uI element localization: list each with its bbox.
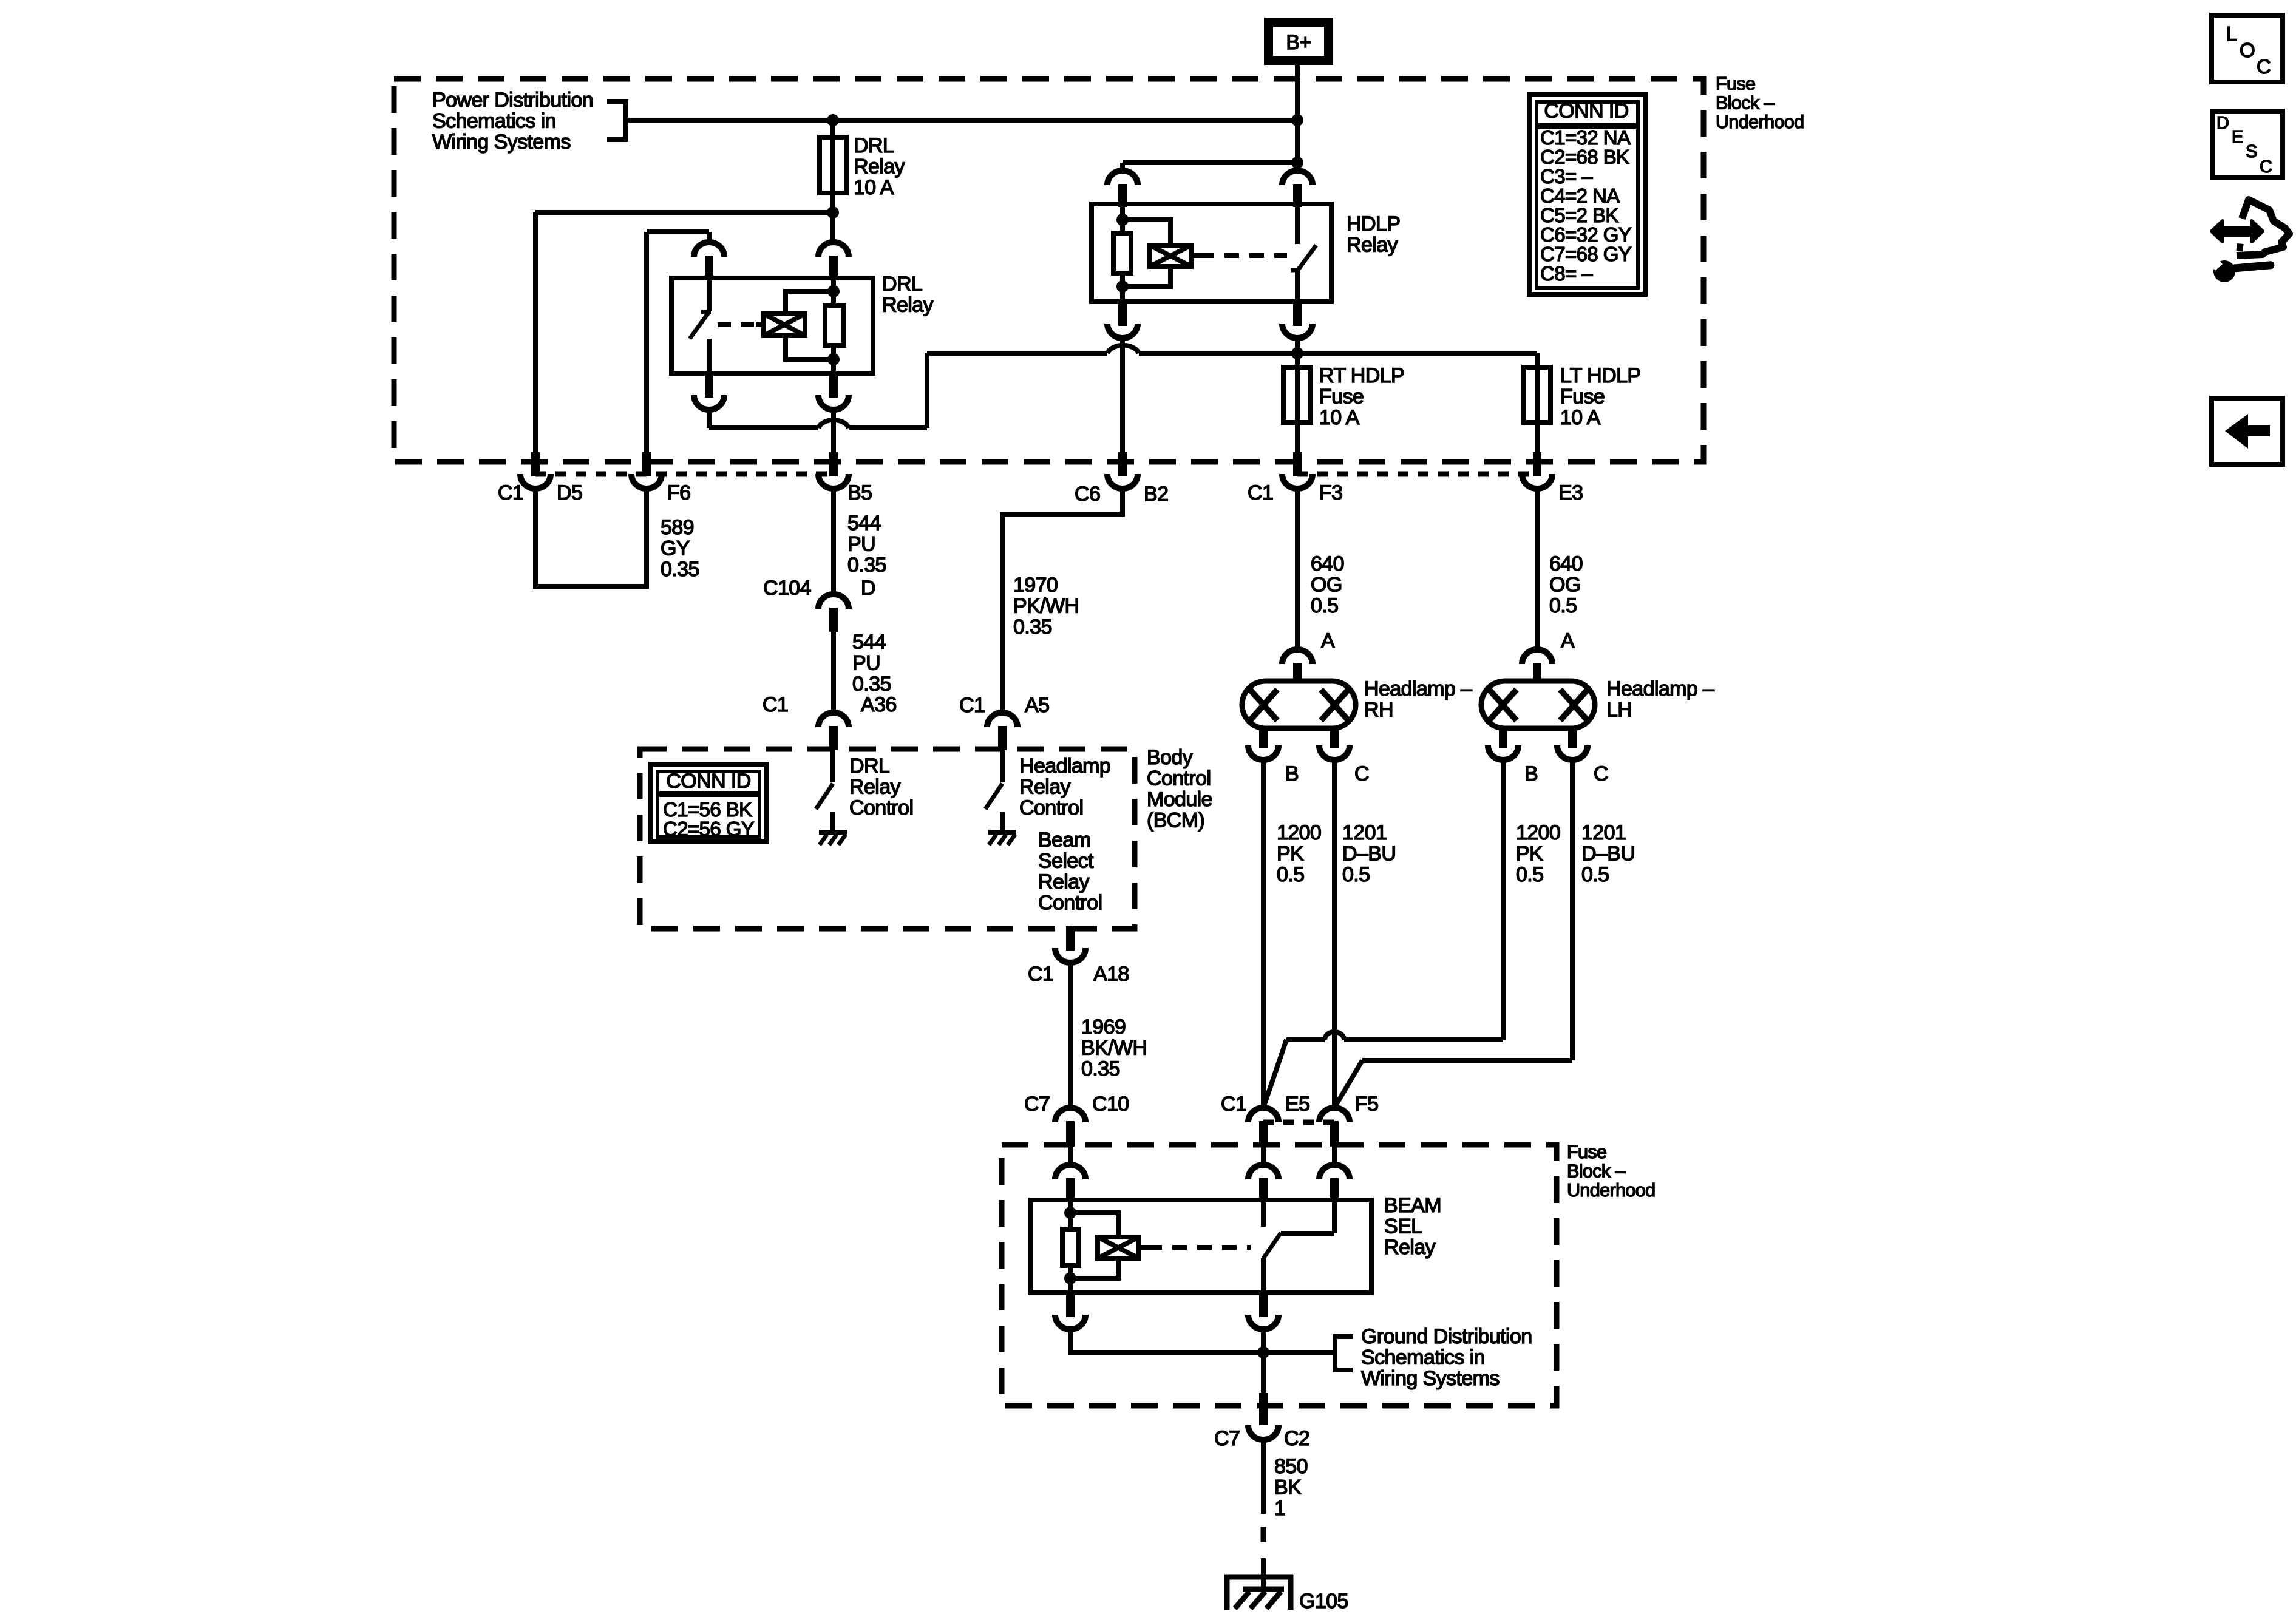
node HDLP coil top <box>1116 214 1129 226</box>
svg-text:OG: OG <box>1549 574 1581 597</box>
svg-text:A5: A5 <box>1025 694 1049 717</box>
svg-text:B2: B2 <box>1144 483 1168 506</box>
fuse block underhood dashed box <box>394 79 1703 462</box>
wire below C2 <box>1261 1439 1266 1514</box>
svg-text:Relay: Relay <box>882 294 934 317</box>
svg-text:G105: G105 <box>1299 1590 1348 1613</box>
connector C1/E5 <box>1248 1108 1279 1122</box>
svg-text:640: 640 <box>1311 552 1344 575</box>
svg-text:0.5: 0.5 <box>1516 863 1543 886</box>
node junction below DRL fuse <box>827 206 839 219</box>
svg-text:PK: PK <box>1516 842 1543 866</box>
connector C7/C10 <box>1055 1108 1085 1122</box>
connector B5 <box>829 452 838 476</box>
connector C1/F3 <box>1293 452 1302 476</box>
wire B2 to A5 <box>1002 487 1123 713</box>
wire B+ vertical drop <box>1295 65 1300 171</box>
svg-text:0.5: 0.5 <box>1311 594 1338 617</box>
connector C1/A5 <box>987 713 1017 727</box>
connector F6 <box>642 452 651 476</box>
svg-text:F6: F6 <box>667 481 690 504</box>
CONN ID table (fuse block) <box>1529 95 1645 294</box>
fuse DRL Relay 10A <box>820 137 846 193</box>
wire DRL fuse to relay <box>830 212 835 242</box>
wire LH-C to F5 routing <box>1362 1058 1572 1063</box>
wire diagonal to F5 <box>1334 1060 1362 1108</box>
connector C1/A18 <box>1066 926 1075 951</box>
ground (DRL relay control) <box>819 830 847 835</box>
wire F6 feed horizontal <box>647 229 709 234</box>
svg-text:HDLP: HDLP <box>1347 212 1400 236</box>
icon LOC box <box>2212 15 2283 82</box>
connector beam relay socket E5 <box>1248 1165 1279 1179</box>
fuse RT HDLP 10A <box>1295 353 1300 452</box>
wire beam output down <box>1261 1328 1266 1393</box>
svg-text:A: A <box>1561 629 1575 653</box>
connector headlamp RH pin A <box>1282 649 1313 664</box>
svg-text:0.5: 0.5 <box>1277 863 1304 886</box>
svg-text:L: L <box>2226 22 2237 45</box>
svg-text:E3: E3 <box>1558 481 1583 504</box>
svg-text:Relay: Relay <box>1384 1236 1436 1259</box>
ground (headlamp relay control) <box>988 830 1016 835</box>
svg-text:C1: C1 <box>959 694 985 717</box>
wire F5 into block <box>1332 1145 1337 1165</box>
resistor HDLP relay <box>1113 233 1131 273</box>
DRL relay coil loop <box>786 291 834 314</box>
hop over RH high beam wire <box>1325 1032 1344 1040</box>
coil HDLP relay <box>1150 245 1191 266</box>
svg-text:C: C <box>2257 55 2271 78</box>
svg-text:C104: C104 <box>763 577 811 600</box>
svg-text:Fuse: Fuse <box>1560 385 1605 408</box>
connector HDLP relay out right <box>1293 302 1302 326</box>
svg-text:B: B <box>1285 762 1299 785</box>
svg-text:Control: Control <box>1147 767 1211 790</box>
HDLP relay actuation dashed <box>1200 253 1287 258</box>
wire HDLP coil feed horizontal <box>1123 160 1297 165</box>
svg-text:544: 544 <box>852 631 886 654</box>
svg-text:C1: C1 <box>763 693 788 716</box>
svg-text:Fuse: Fuse <box>1716 73 1755 94</box>
svg-text:(BCM): (BCM) <box>1147 809 1204 832</box>
lamp headlamp RH <box>1242 681 1356 728</box>
wire diagonal to E5 <box>1263 1040 1286 1108</box>
svg-text:CONN ID: CONN ID <box>1544 100 1628 123</box>
svg-text:PK: PK <box>1277 842 1304 866</box>
svg-text:Relay: Relay <box>1019 776 1071 799</box>
node HDLP coil bottom <box>1116 280 1129 293</box>
svg-text:850: 850 <box>1274 1455 1308 1478</box>
svg-text:0.5: 0.5 <box>1342 863 1370 886</box>
hop over B2 wire <box>1107 345 1139 353</box>
HDLP relay coil loop <box>1123 220 1170 245</box>
svg-text:Relay: Relay <box>1038 870 1090 893</box>
svg-text:Relay: Relay <box>1347 234 1398 257</box>
svg-text:GY: GY <box>661 537 690 560</box>
wire dashed to ground <box>1261 1527 1266 1542</box>
fuse LT HDLP 10A <box>1535 353 1540 452</box>
wire LH-B to E5 routing <box>1344 1037 1503 1042</box>
connector beam relay socket F5 <box>1319 1165 1350 1179</box>
svg-text:Control: Control <box>1019 796 1083 819</box>
node DRL coil top <box>827 285 840 297</box>
connector HDLP relay pin right <box>1282 171 1313 185</box>
dotted connector line C1 left <box>535 472 834 477</box>
wire F3 to RH headlamp <box>1295 487 1300 649</box>
beam relay switch <box>1261 1200 1266 1227</box>
wire B5 column through <box>831 408 836 452</box>
wire DRL output horizontal <box>709 425 818 430</box>
connector DRL relay out left <box>705 373 713 398</box>
svg-text:Relay: Relay <box>854 155 905 178</box>
svg-text:Underhood: Underhood <box>1716 112 1804 132</box>
svg-text:C: C <box>2260 157 2272 177</box>
svg-text:E5: E5 <box>1285 1093 1309 1116</box>
svg-text:D5: D5 <box>557 481 582 504</box>
power feed node B+ box <box>1264 18 1333 65</box>
svg-text:Headlamp: Headlamp <box>1019 754 1110 778</box>
svg-text:RH: RH <box>1364 699 1393 722</box>
icon connector repair <box>2237 200 2289 256</box>
connector headlamp RH pin C <box>1330 728 1339 748</box>
svg-text:1969: 1969 <box>1081 1015 1126 1039</box>
wire into DRL relay left pin <box>707 232 712 242</box>
svg-text:0.5: 0.5 <box>1549 594 1577 617</box>
svg-text:1200: 1200 <box>1516 821 1560 844</box>
beam relay actuation dashed <box>1147 1245 1251 1250</box>
HDLP relay coil feed <box>1120 204 1125 233</box>
svg-text:S: S <box>2246 142 2257 161</box>
svg-text:0.35: 0.35 <box>847 554 886 577</box>
svg-text:C: C <box>1354 762 1369 785</box>
svg-text:C10: C10 <box>1092 1093 1129 1116</box>
wire HDLP switch output <box>1295 337 1300 367</box>
connector DRL relay pin left <box>694 242 724 257</box>
wire E5 into block <box>1261 1145 1266 1165</box>
connector F5 <box>1319 1108 1350 1122</box>
svg-text:F3: F3 <box>1319 481 1342 504</box>
wire E3 to LH headlamp <box>1535 487 1540 649</box>
svg-text:Headlamp –: Headlamp – <box>1364 677 1472 700</box>
wire into G105 <box>1261 1558 1266 1592</box>
node junction on feed at B+ drop <box>1291 114 1303 126</box>
coil DRL relay <box>764 314 805 336</box>
wire F6 column drop <box>644 232 649 452</box>
node beam coil top <box>1064 1207 1076 1219</box>
HDLP relay switch <box>1295 204 1300 244</box>
svg-text:Wiring Systems: Wiring Systems <box>432 131 571 154</box>
svg-text:Body: Body <box>1147 746 1193 769</box>
svg-text:Schematics in: Schematics in <box>432 110 556 133</box>
connector HDLP relay out left <box>1118 302 1127 326</box>
ground G105 symbol <box>1224 1575 1293 1580</box>
svg-text:A36: A36 <box>861 693 897 716</box>
wire A18 to C10 <box>1068 961 1073 1108</box>
svg-text:C2: C2 <box>1284 1427 1309 1450</box>
wire C10 into block <box>1068 1145 1073 1165</box>
svg-text:0.35: 0.35 <box>1081 1057 1120 1080</box>
svg-text:LH: LH <box>1606 699 1632 722</box>
beam relay coil loop <box>1070 1213 1118 1237</box>
svg-text:DRL: DRL <box>849 754 889 778</box>
svg-text:BEAM: BEAM <box>1384 1194 1441 1217</box>
svg-text:O: O <box>2240 39 2255 61</box>
svg-text:0.35: 0.35 <box>661 558 699 581</box>
wire to DRL fuse <box>830 120 835 212</box>
connector headlamp LH pin A <box>1522 649 1552 664</box>
svg-text:Headlamp –: Headlamp – <box>1606 677 1714 700</box>
svg-text:Block –: Block – <box>1716 93 1774 114</box>
wire B5 to C104 <box>831 487 836 594</box>
svg-text:Relay: Relay <box>849 776 901 799</box>
svg-text:Fuse: Fuse <box>1567 1142 1606 1162</box>
svg-text:C6: C6 <box>1075 483 1100 506</box>
svg-text:1: 1 <box>1274 1497 1285 1520</box>
svg-text:1201: 1201 <box>1581 821 1626 844</box>
svg-text:0.35: 0.35 <box>852 673 891 696</box>
connector beam relay out right <box>1259 1293 1268 1317</box>
svg-text:BK/WH: BK/WH <box>1081 1037 1147 1060</box>
svg-text:B5: B5 <box>847 481 872 504</box>
svg-text:Block –: Block – <box>1567 1161 1625 1182</box>
svg-text:A18: A18 <box>1093 963 1129 986</box>
svg-text:DRL: DRL <box>882 273 922 296</box>
coil beam relay <box>1098 1237 1139 1258</box>
resistor beam relay <box>1062 1229 1079 1266</box>
svg-text:PU: PU <box>847 533 875 556</box>
svg-text:C1: C1 <box>1028 963 1053 986</box>
svg-text:Module: Module <box>1147 788 1212 811</box>
hop over B5 wire <box>818 420 849 428</box>
connector HDLP relay pin left <box>1107 171 1138 185</box>
svg-text:C7: C7 <box>1024 1093 1050 1116</box>
dotted connector line C1 right <box>1297 472 1537 477</box>
svg-text:PU: PU <box>852 652 880 675</box>
svg-text:544: 544 <box>847 512 881 535</box>
connector C104/D <box>818 594 849 609</box>
svg-text:C: C <box>1594 762 1608 785</box>
body control module dashed box <box>640 749 1135 929</box>
svg-text:Fuse: Fuse <box>1319 385 1364 408</box>
connector C6/B2 <box>1118 452 1127 476</box>
icon DESC box <box>2212 111 2283 177</box>
connector E3 <box>1533 452 1541 476</box>
connector headlamp LH pin B <box>1499 728 1507 748</box>
svg-text:10 A: 10 A <box>1319 406 1360 429</box>
connector DRL relay pin right <box>818 242 849 257</box>
svg-text:E: E <box>2232 127 2243 147</box>
svg-text:Schematics in: Schematics in <box>1361 1346 1485 1369</box>
wire HDLP coil output to B2 <box>1120 337 1125 452</box>
svg-text:0.35: 0.35 <box>1013 615 1052 639</box>
node ground tie <box>1257 1346 1269 1358</box>
svg-text:Wiring Systems: Wiring Systems <box>1361 1367 1500 1390</box>
connector C1/D5 <box>531 452 540 476</box>
DRL relay switch <box>707 278 712 311</box>
wire DRL output riser <box>925 353 929 428</box>
wire branch to D5 column <box>535 210 833 215</box>
CONN ID table (BCM) <box>650 764 767 842</box>
svg-text:Underhood: Underhood <box>1567 1180 1656 1201</box>
svg-text:Control: Control <box>849 796 913 819</box>
svg-text:D: D <box>861 577 875 600</box>
BCM DRL relay control switch <box>830 750 835 782</box>
svg-text:Power Distribution: Power Distribution <box>432 89 593 112</box>
wire to ground bracket <box>1263 1350 1333 1355</box>
svg-text:Select: Select <box>1038 850 1094 873</box>
wire DRL switch output down <box>707 408 712 428</box>
connector beam relay out left <box>1066 1293 1075 1317</box>
node junction on feed at DRL fuse <box>827 114 839 126</box>
svg-text:10 A: 10 A <box>1560 406 1601 429</box>
connector beam relay socket C10 <box>1055 1165 1085 1179</box>
svg-text:C2=56 GY: C2=56 GY <box>663 818 755 840</box>
wire beam coil return <box>1070 1328 1263 1352</box>
svg-text:RT HDLP: RT HDLP <box>1319 364 1404 387</box>
lamp headlamp LH <box>1481 681 1595 728</box>
svg-text:OG: OG <box>1311 574 1342 597</box>
wire headlamp feed horizontal <box>927 351 1107 356</box>
wire DRL resistor bottom <box>831 345 836 373</box>
svg-text:Beam: Beam <box>1038 829 1090 852</box>
connector C1/A36 <box>818 713 849 727</box>
beam relay coil feed <box>1068 1200 1073 1229</box>
svg-text:10 A: 10 A <box>854 176 894 199</box>
svg-text:Ground Distribution: Ground Distribution <box>1361 1325 1532 1348</box>
DRL relay actuation dashed <box>718 322 756 327</box>
connector headlamp LH pin C <box>1568 728 1577 748</box>
svg-text:SEL: SEL <box>1384 1215 1422 1238</box>
svg-text:589: 589 <box>661 516 694 539</box>
svg-text:CONN ID: CONN ID <box>666 770 750 793</box>
wire C104 to A36 <box>831 632 836 713</box>
svg-text:B: B <box>1524 762 1538 785</box>
icon back-arrow box <box>2212 398 2283 464</box>
svg-text:F5: F5 <box>1355 1093 1378 1116</box>
svg-text:BK: BK <box>1274 1476 1302 1499</box>
node junction HDLP coil branch <box>1291 157 1303 169</box>
svg-text:A: A <box>1321 629 1335 653</box>
bracket to power distribution <box>607 101 626 140</box>
svg-text:B+: B+ <box>1286 31 1311 54</box>
bracket ground distribution <box>1335 1337 1353 1370</box>
svg-text:LT HDLP: LT HDLP <box>1560 364 1640 387</box>
svg-text:1200: 1200 <box>1277 821 1321 844</box>
svg-text:C8= –: C8= – <box>1540 262 1593 285</box>
svg-text:Control: Control <box>1038 892 1102 915</box>
relay DRL box <box>671 278 873 373</box>
svg-text:D: D <box>2216 114 2229 133</box>
connector C7/C2 <box>1259 1393 1268 1425</box>
connector DRL relay out right <box>829 373 838 398</box>
svg-text:C1: C1 <box>1248 481 1273 504</box>
wire LH low beam (B) down <box>1501 759 1506 1040</box>
svg-text:C1: C1 <box>498 481 523 504</box>
BCM headlamp relay control switch <box>1000 750 1005 782</box>
svg-text:C1: C1 <box>1221 1093 1246 1116</box>
fuse block underhood 2 dashed box <box>1002 1145 1557 1406</box>
svg-text:640: 640 <box>1549 552 1583 575</box>
wire beam resistor bottom <box>1068 1266 1073 1293</box>
relay HDLP box <box>1092 204 1331 302</box>
dotted connector line E5-F5 <box>1263 1120 1334 1125</box>
wire B+ feed horizontal <box>628 118 1297 123</box>
svg-text:1201: 1201 <box>1342 821 1387 844</box>
DRL relay coil feed <box>831 278 836 305</box>
svg-text:1970: 1970 <box>1013 574 1058 597</box>
svg-text:C7: C7 <box>1214 1427 1240 1450</box>
wire D5 column drop <box>533 212 538 452</box>
wire HDLP coil feed drop <box>1120 163 1125 171</box>
wire RH high beam (C) down <box>1332 759 1337 1108</box>
connector headlamp RH pin B <box>1259 728 1268 748</box>
wire RH low beam (B) down <box>1261 759 1266 1108</box>
svg-text:DRL: DRL <box>854 134 894 157</box>
relay BEAM SEL box <box>1031 1200 1371 1293</box>
svg-text:PK/WH: PK/WH <box>1013 595 1079 618</box>
resistor DRL relay <box>825 305 844 345</box>
svg-text:0.5: 0.5 <box>1581 863 1609 886</box>
wire HDLP resistor bottom <box>1120 273 1125 302</box>
node DRL coil bottom <box>827 353 840 365</box>
node junction RT fuse tee <box>1291 347 1303 359</box>
svg-text:D–BU: D–BU <box>1581 842 1635 866</box>
wire LH high beam (C) down <box>1570 759 1575 1060</box>
svg-text:D–BU: D–BU <box>1342 842 1396 866</box>
wire D5-F6 loop <box>535 487 647 586</box>
node beam coil bottom <box>1064 1272 1076 1284</box>
